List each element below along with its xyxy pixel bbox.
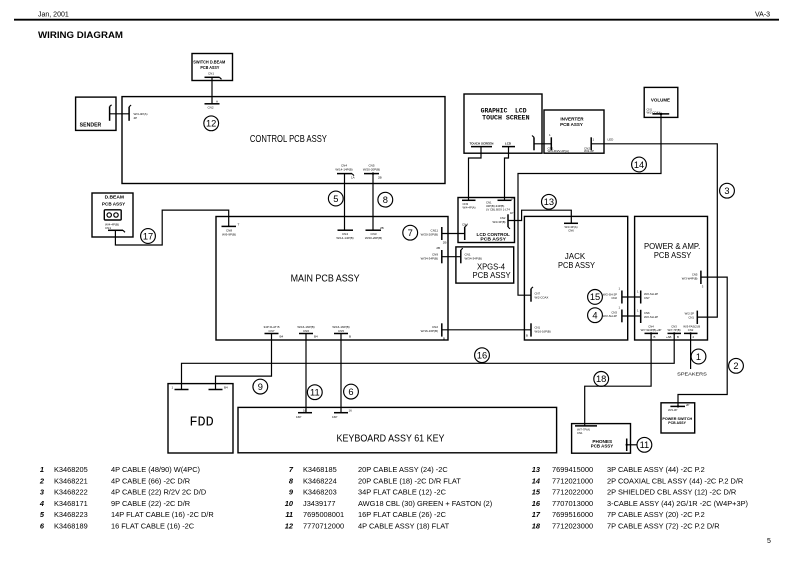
svg-text:INVERTER: INVERTER — [560, 116, 584, 121]
fdd box — [168, 384, 233, 453]
svg-text:SWITCH D.BEAM: SWITCH D.BEAM — [193, 60, 225, 65]
svg-text:W/20-20P(B): W/20-20P(B) — [363, 168, 380, 172]
circle 15 — [588, 290, 603, 305]
svg-text:W/2-SH-2P: W/2-SH-2P — [644, 315, 658, 319]
volume box — [644, 87, 678, 117]
svg-text:K3468224: K3468224 — [303, 476, 337, 485]
wire 6 (main to keyboard) — [340, 334, 342, 413]
svg-text:K3468185: K3468185 — [303, 465, 337, 474]
circle 17 — [141, 229, 156, 244]
circle 8 — [378, 192, 393, 207]
connector power left upper — [637, 290, 658, 304]
svg-text:7699415000: 7699415000 — [552, 465, 593, 474]
connector jack right upper — [618, 287, 621, 304]
connector main right (xpgs wire) — [436, 246, 441, 263]
svg-text:16P FLAT CABLE (26) -2C: 16P FLAT CABLE (26) -2C — [358, 510, 447, 519]
svg-text:K3468189: K3468189 — [54, 522, 88, 531]
svg-text:+AB: +AB — [666, 335, 671, 339]
svg-text:2B: 2B — [443, 241, 447, 245]
wire touch screen to lcd control — [469, 147, 482, 201]
svg-text:SENDER: SENDER — [80, 122, 102, 128]
svg-text:CN4: CN4 — [462, 223, 468, 227]
connector inverter left — [548, 133, 570, 153]
svg-text:2B: 2B — [380, 226, 384, 230]
svg-text:7770712000: 7770712000 — [303, 522, 344, 531]
svg-text:1: 1 — [637, 309, 639, 313]
svg-text:J3439177: J3439177 — [303, 499, 335, 508]
svg-text:1P: 1P — [511, 197, 515, 201]
main bottom connector (wire 11) — [297, 325, 318, 339]
svg-text:W/16-16P(B): W/16-16P(B) — [535, 330, 551, 334]
svg-text:7712022000: 7712022000 — [552, 488, 593, 497]
svg-text:W/16-16P(B): W/16-16P(B) — [421, 329, 438, 333]
svg-text:7699516000: 7699516000 — [552, 510, 593, 519]
svg-text:7: 7 — [289, 465, 294, 474]
svg-text:1A: 1A — [351, 176, 355, 180]
svg-text:3-CABLE ASSY (44) 2G/1R -2C: 3-CABLE ASSY (44) 2G/1R -2C (W4P+3P) — [607, 499, 748, 508]
svg-text:2P: 2P — [686, 403, 690, 407]
svg-text:1: 1 — [618, 306, 620, 310]
wire 11 (main to keyboard) — [305, 334, 307, 413]
svg-text:12: 12 — [285, 522, 294, 531]
svg-text:20P CABLE (18) -2C D/R FLAT: 20P CABLE (18) -2C D/R FLAT — [358, 476, 461, 485]
svg-text:VA-3: VA-3 — [755, 12, 770, 19]
svg-text:K3468221: K3468221 — [54, 476, 88, 485]
wire 17 (d.beam to main) — [115, 210, 228, 245]
circle 7 — [403, 225, 418, 240]
svg-text:A: A — [216, 100, 218, 104]
wire 18 (power to phones) — [585, 333, 651, 425]
circle 3 — [720, 183, 735, 198]
svg-text:16: 16 — [303, 409, 307, 413]
wire 3 (inverter to power amp) — [591, 144, 717, 317]
svg-text:PCB ASSY: PCB ASSY — [102, 201, 125, 206]
label wire 7 — [421, 229, 439, 237]
svg-text:CN1: CN1 — [577, 431, 583, 435]
svg-text:11: 11 — [640, 440, 650, 450]
wire 16 (power to fdd long wire) — [182, 333, 675, 389]
svg-text:K3468203: K3468203 — [303, 488, 337, 497]
svg-text:WIRING DIAGRAM: WIRING DIAGRAM — [38, 30, 123, 41]
svg-text:16P: 16P — [296, 415, 301, 419]
svg-text:W/20-20P(B): W/20-20P(B) — [365, 236, 382, 240]
svg-text:1: 1 — [40, 465, 44, 474]
svg-text:9P CABLE (22) -2C D/R: 9P CABLE (22) -2C D/R — [111, 499, 190, 508]
wire main to xpgs — [442, 256, 461, 258]
svg-text:15: 15 — [532, 488, 541, 497]
svg-text:AWG18 CBL (30) GREEN + FASTON: AWG18 CBL (30) GREEN + FASTON (2) — [358, 499, 492, 508]
svg-text:3: 3 — [702, 285, 704, 289]
svg-text:PCB ASSY: PCB ASSY — [200, 65, 219, 70]
svg-text:4P: 4P — [134, 116, 138, 120]
label main right (xpgs wire) — [421, 253, 439, 261]
wire 7 (main to lcd control) — [442, 233, 465, 235]
svg-text:7: 7 — [408, 228, 413, 238]
svg-text:MAIN PCB ASSY: MAIN PCB ASSY — [291, 274, 360, 285]
svg-text:B4: B4 — [314, 335, 318, 339]
connector main top (wire 8) — [365, 226, 384, 240]
svg-text:16 FLAT CABLE (16) -2C: 16 FLAT CABLE (16) -2C — [111, 522, 195, 531]
svg-text:5: 5 — [333, 194, 338, 204]
connector main right (wire 16 flat) — [421, 323, 445, 340]
wire 2 (power to power switch) — [678, 277, 727, 406]
connector graphic lcd right — [532, 136, 534, 151]
svg-text:W/7-W4P(B)+3P: W/7-W4P(B)+3P — [641, 328, 662, 332]
graphic lcd touch screen box — [464, 94, 542, 153]
main pcb assy box — [216, 217, 448, 341]
svg-text:1: 1 — [618, 287, 620, 291]
svg-text:5: 5 — [40, 510, 45, 519]
svg-text:TOUCH SCREEN: TOUCH SCREEN — [482, 115, 530, 122]
connector xpgs left — [461, 248, 482, 263]
svg-text:6: 6 — [348, 387, 353, 397]
svg-text:1: 1 — [593, 138, 595, 142]
svg-text:CN2: CN2 — [688, 328, 694, 332]
svg-text:W/3-W4P(B): W/3-W4P(B) — [682, 277, 698, 281]
connector power right lower (wire 3) — [685, 311, 701, 329]
svg-text:16: 16 — [532, 499, 541, 508]
svg-text:1: 1 — [637, 290, 639, 294]
svg-text:18: 18 — [596, 374, 606, 384]
wire 15 (jack to power) — [622, 296, 641, 298]
svg-text:8: 8 — [289, 476, 294, 485]
keyboard assy box — [238, 407, 557, 452]
svg-text:W/3-3P: W/3-3P — [668, 408, 677, 412]
lcd control pcb assy box — [458, 197, 515, 243]
wire 14 (volume to jack) — [518, 114, 661, 295]
svg-text:16: 16 — [349, 409, 353, 413]
svg-text:14P FLAT CABLE (16) -2C D/R: 14P FLAT CABLE (16) -2C D/R — [111, 510, 214, 519]
svg-text:2P SHIELDED CBL ASSY (12) -2C: 2P SHIELDED CBL ASSY (12) -2C D/R — [607, 488, 736, 497]
circle 11 keyboard — [307, 385, 322, 400]
svg-text:CN1: CN1 — [105, 226, 111, 230]
connector CN2 on control pcb (wire 12) — [205, 100, 220, 110]
svg-text:2P COAXIAL CBL ASSY (44) -2C P: 2P COAXIAL CBL ASSY (44) -2C P.2 D/R — [607, 476, 743, 485]
connector on sender (wire to control) — [110, 105, 112, 121]
svg-text:9: 9 — [289, 488, 294, 497]
svg-text:PCB ASSY: PCB ASSY — [668, 421, 686, 425]
svg-text:B4: B4 — [280, 335, 284, 339]
svg-text:CN7: CN7 — [644, 296, 650, 300]
svg-text:13: 13 — [544, 197, 554, 207]
svg-text:B: B — [443, 337, 445, 341]
svg-text:6: 6 — [40, 522, 45, 531]
connector jack left lower — [526, 323, 551, 337]
svg-text:KEYBOARD ASSY 61 KEY: KEYBOARD ASSY 61 KEY — [337, 434, 445, 445]
svg-text:K3468222: K3468222 — [54, 488, 88, 497]
wire 8 (control to main) — [372, 174, 374, 231]
switch d.beam pcb assy box — [192, 54, 233, 81]
connector inverter right — [584, 137, 595, 153]
svg-text:10: 10 — [285, 499, 294, 508]
circle 13 — [542, 194, 557, 209]
svg-text:14: 14 — [634, 160, 644, 170]
svg-text:B: B — [654, 335, 656, 339]
main bottom connector (wire 6) — [332, 325, 351, 339]
svg-text:17: 17 — [532, 510, 541, 519]
svg-text:T: T — [238, 223, 240, 227]
svg-text:CN1: CN1 — [208, 72, 214, 76]
d.beam pcb assy box — [92, 193, 133, 237]
svg-text:2: 2 — [39, 476, 45, 485]
parts list — [39, 465, 748, 531]
circle 2 — [729, 358, 744, 373]
control pcb assy box — [122, 97, 445, 184]
circle 5 — [328, 191, 343, 206]
svg-text:W/2-COAX: W/2-COAX — [535, 296, 549, 300]
svg-text:PCB ASSY: PCB ASSY — [558, 261, 596, 270]
svg-text:16: 16 — [477, 351, 487, 361]
connector phones right — [626, 439, 628, 452]
svg-text:1: 1 — [696, 352, 701, 362]
svg-text:7695008001: 7695008001 — [303, 510, 344, 519]
connector CN1 on control pcb (sender wire) — [129, 105, 147, 121]
connector CN5 control bottom (wire 8) — [363, 164, 382, 180]
connector power left lower — [637, 309, 658, 324]
svg-text:CN2: CN2 — [611, 296, 617, 300]
power switch pcb assy box — [661, 403, 695, 433]
svg-text:9: 9 — [258, 382, 263, 392]
connector jack top (wire 13) — [564, 223, 578, 232]
svg-text:K3468171: K3468171 — [54, 499, 88, 508]
svg-text:B: B — [526, 334, 528, 338]
svg-text:7712021000: 7712021000 — [552, 476, 593, 485]
jack pcb assy box — [524, 216, 627, 340]
svg-text:PCB ASSY: PCB ASSY — [560, 122, 583, 127]
connector power right upper (wire 2) — [682, 271, 704, 289]
svg-text:CONTROL PCB ASSY: CONTROL PCB ASSY — [250, 134, 327, 145]
svg-text:1: 1 — [172, 386, 174, 390]
svg-text:34P FLAT CABLE (12) -2C: 34P FLAT CABLE (12) -2C — [358, 488, 447, 497]
svg-text:11: 11 — [310, 388, 320, 398]
wire graphic lcd to inverter — [534, 143, 551, 145]
xpgs-4 pcb assy box — [456, 247, 514, 283]
wire phones to circle 11 — [627, 444, 638, 446]
svg-text:PCB ASSY: PCB ASSY — [473, 271, 512, 280]
circle 16 — [475, 348, 490, 363]
label wire 4 — [603, 311, 618, 319]
connector lcd control right (wire 13) — [492, 211, 513, 229]
svg-text:LED: LED — [608, 138, 615, 142]
svg-text:W/20-20P(B): W/20-20P(B) — [421, 233, 438, 237]
circle 11 phones — [637, 437, 652, 452]
svg-text:11: 11 — [285, 510, 293, 519]
svg-text:W/7-7P(B): W/7-7P(B) — [667, 328, 680, 332]
svg-text:POWER & AMP.: POWER & AMP. — [644, 242, 700, 251]
connector lcd control left (wire 7) — [462, 223, 468, 241]
connector CN8 on main (wire 17) — [222, 223, 240, 237]
wire 1 (speakers) — [690, 333, 692, 369]
sender box — [76, 97, 116, 130]
svg-text:3P CABLE ASSY (44) -2C P.2: 3P CABLE ASSY (44) -2C P.2 — [607, 465, 705, 474]
svg-text:W/14-14P(B): W/14-14P(B) — [335, 168, 352, 172]
svg-text:1P: 1P — [510, 211, 514, 215]
svg-text:LV CBL BOX 1-LT4: LV CBL BOX 1-LT4 — [486, 208, 510, 212]
circle 1 — [691, 349, 706, 364]
inverter pcb assy box — [544, 110, 604, 153]
svg-text:K3468205: K3468205 — [54, 465, 88, 474]
wire 12 (switch d.beam to control) — [211, 77, 213, 104]
power bottom connector CN2 (speakers) — [683, 325, 698, 339]
svg-text:CN1: CN1 — [688, 316, 694, 320]
svg-text:4P CABLE ASSY (18) FLAT: 4P CABLE ASSY (18) FLAT — [358, 522, 450, 531]
svg-text:W/9-9P(B): W/9-9P(B) — [222, 233, 236, 237]
svg-text:K3468223: K3468223 — [54, 510, 88, 519]
circle 9 — [253, 379, 268, 394]
svg-text:8: 8 — [383, 195, 388, 205]
label wire 15 — [603, 293, 618, 301]
svg-text:2: 2 — [733, 361, 738, 371]
connector jack left (wire 14) — [531, 287, 548, 302]
svg-text:7707013000: 7707013000 — [552, 499, 593, 508]
svg-text:W/3-3P(B): W/3-3P(B) — [492, 220, 505, 224]
svg-text:W/34-34P(B): W/34-34P(B) — [421, 257, 438, 261]
circle 12 — [204, 116, 219, 131]
svg-text:JACK: JACK — [565, 252, 586, 261]
power bottom connector CN3 (wire 16) — [666, 325, 681, 339]
svg-text:W/2-SH-2P: W/2-SH-2P — [603, 314, 617, 318]
svg-text:FDD: FDD — [189, 416, 213, 431]
svg-text:CN2: CN2 — [208, 106, 214, 110]
svg-text:B: B — [698, 325, 700, 329]
svg-text:CN7: CN7 — [268, 329, 274, 333]
phones pcb assy box — [572, 424, 631, 454]
svg-text:CN5: CN5 — [338, 329, 344, 333]
circle 14 — [632, 157, 647, 172]
main bottom connector (wire 9) — [263, 325, 283, 339]
svg-text:VOLUME: VOLUME — [651, 98, 670, 103]
svg-text:4: 4 — [39, 499, 44, 508]
power amp pcb assy box — [635, 216, 708, 340]
svg-text:13: 13 — [532, 465, 541, 474]
svg-text:Jan, 2001: Jan, 2001 — [38, 12, 69, 19]
circle 18 — [594, 372, 609, 387]
svg-text:16P: 16P — [332, 415, 337, 419]
svg-text:W/4-R/2V-2P(A): W/4-R/2V-2P(A) — [548, 149, 570, 153]
svg-text:4P CABLE (66) -2C D/R: 4P CABLE (66) -2C D/R — [111, 476, 190, 485]
svg-text:B: B — [677, 335, 679, 339]
svg-text:PCB ASSY: PCB ASSY — [591, 443, 614, 448]
svg-text:W/14-14P(B): W/14-14P(B) — [336, 236, 353, 240]
svg-text:B4: B4 — [224, 386, 228, 390]
wire lcd to lcd control — [505, 147, 509, 201]
svg-text:SPEAKERS: SPEAKERS — [677, 371, 707, 377]
svg-text:D.BEAM: D.BEAM — [105, 195, 125, 200]
svg-text:2: 2 — [693, 335, 695, 339]
svg-text:3: 3 — [40, 488, 45, 497]
connector jack right lower — [618, 306, 621, 323]
wire sender to control — [110, 113, 130, 115]
svg-text:3: 3 — [724, 186, 729, 196]
svg-text:PCB ASSY: PCB ASSY — [654, 251, 692, 260]
svg-text:14: 14 — [532, 476, 540, 485]
circle 6 — [344, 384, 359, 399]
svg-text:PCB ASSY: PCB ASSY — [480, 237, 506, 242]
svg-text:20P CABLE ASSY (24) -2C: 20P CABLE ASSY (24) -2C — [358, 465, 448, 474]
svg-text:4P CABLE (48/90) W(4PC): 4P CABLE (48/90) W(4PC) — [111, 465, 200, 474]
svg-text:5: 5 — [767, 538, 771, 545]
connector CN6 control bottom (wire 5) — [335, 164, 354, 180]
connector main right (wire 7) — [442, 227, 447, 245]
svg-text:B: B — [349, 335, 351, 339]
svg-text:2B: 2B — [378, 176, 382, 180]
power bottom connector CN4 (wire 18) — [641, 325, 662, 339]
svg-text:15: 15 — [590, 292, 600, 302]
connector main top (wire 5) — [336, 230, 353, 240]
circle 4 — [588, 308, 603, 323]
svg-text:1: 1 — [549, 133, 551, 137]
svg-text:17: 17 — [143, 231, 153, 241]
svg-text:7712023000: 7712023000 — [552, 522, 593, 531]
svg-text:TOUCH SCREEN: TOUCH SCREEN — [470, 141, 494, 145]
svg-text:W/2-2P: W/2-2P — [584, 149, 594, 153]
svg-text:4: 4 — [592, 311, 597, 321]
svg-text:18: 18 — [532, 522, 541, 531]
wire 9 (main to fdd) — [216, 334, 272, 390]
svg-text:2B: 2B — [436, 246, 440, 250]
wire main to jack — [442, 329, 531, 331]
svg-text:W/34-34P(B): W/34-34P(B) — [465, 257, 482, 261]
wire 13 (lcd control to jack) — [508, 210, 571, 223]
wire 4 (jack to power) — [622, 315, 641, 317]
svg-text:CN6: CN6 — [303, 329, 309, 333]
svg-text:12: 12 — [206, 119, 216, 129]
svg-text:7P CABLE ASSY (72) -2C P.2: 7P CABLE ASSY (72) -2C P.2 D/R — [607, 522, 720, 531]
svg-text:W/4-4P(A): W/4-4P(A) — [463, 206, 476, 210]
wire 5 (control to main) — [344, 174, 346, 231]
svg-text:CN6: CN6 — [568, 229, 574, 233]
svg-text:7P CABLE ASSY (20) -2C P.2: 7P CABLE ASSY (20) -2C P.2 — [607, 510, 705, 519]
svg-text:LCD: LCD — [505, 141, 512, 145]
svg-text:4P CABLE (22) R/2V 2C D/D: 4P CABLE (22) R/2V 2C D/D — [111, 488, 206, 497]
